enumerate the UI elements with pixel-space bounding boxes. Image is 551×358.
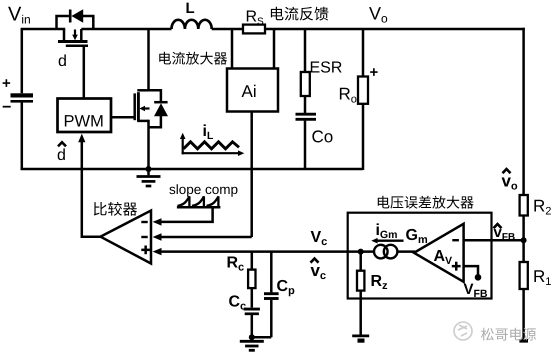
arrow into comparator plus input <box>153 248 162 255</box>
watermark logo circle <box>454 322 472 340</box>
current source Gm circle 2 <box>384 245 398 259</box>
iL waveform axis horizontal <box>182 152 240 154</box>
ground G1 bar1 <box>137 175 161 178</box>
label R2 <box>534 200 550 215</box>
ground G2 bar2 <box>245 345 258 348</box>
wire Rc to Cc <box>251 288 254 308</box>
arrow into comparator middle minus input <box>153 233 162 240</box>
wire top rail right segment <box>265 28 525 31</box>
ground G1 stub <box>147 169 150 175</box>
arrow into PWM bottom (duty command) <box>78 134 85 143</box>
resistor R1 <box>520 262 528 289</box>
label ESR <box>311 61 342 72</box>
slope comp sawtooth <box>178 196 219 206</box>
resistor Rs <box>243 25 265 34</box>
label slope comp <box>169 184 237 197</box>
transistor Q1 body arrow head <box>72 35 78 41</box>
op-amp U2 Av <box>414 224 464 282</box>
transistor Q2 source tab <box>137 120 148 123</box>
block error amplifier box <box>348 213 492 299</box>
iL waveform axis horizontal arrow <box>238 150 244 156</box>
junction compensation ground node <box>249 334 255 340</box>
current source iGm arrow head <box>371 238 377 244</box>
slope comp baseline <box>177 206 221 209</box>
wire top rail left segment <box>21 28 66 31</box>
capacitor Cp bottom plate <box>264 297 279 300</box>
transistor Q2 gate bar <box>133 93 136 120</box>
wire ESR branch top <box>304 29 307 71</box>
junction vFB node <box>521 237 527 243</box>
label Vin <box>8 7 30 24</box>
iL waveform axis vertical arrow <box>180 133 186 139</box>
wire Gm to op-amp output <box>397 250 415 253</box>
transistor Q1 source tab <box>63 29 66 40</box>
diode D1 cathode bar <box>69 10 72 23</box>
wire op-amp minus input <box>464 239 525 242</box>
wire Cp to ground node <box>270 300 273 337</box>
wire bottom rail <box>21 168 363 171</box>
wire Q1 gate lead to PWM <box>83 46 86 98</box>
ground G3 bar2 <box>358 339 365 343</box>
wire Cc to ground node <box>251 315 254 337</box>
label vc-hat <box>311 267 326 279</box>
terminal R1 bottom <box>519 339 528 343</box>
label d-hat accent <box>58 142 66 146</box>
wire comparator output to PWM <box>82 141 101 237</box>
current source Gm circle 1 <box>374 245 388 259</box>
block Ai current amplifier <box>227 69 278 112</box>
wire Vo feedback vertical <box>522 28 525 195</box>
op-amp U2 minus sign <box>452 239 459 241</box>
label Cc <box>229 295 246 309</box>
transistor Q2 drain tab <box>137 89 148 92</box>
label Cp <box>277 280 294 296</box>
label Rs <box>247 10 263 24</box>
battery B1 top plate <box>11 93 34 97</box>
label iGm <box>377 223 397 238</box>
comparator U1 <box>101 211 152 264</box>
label vc-hat accent <box>311 259 319 263</box>
ground G3 bar1 <box>352 335 369 338</box>
wire Rs left stub to Ai <box>231 29 234 69</box>
label Ai <box>242 85 256 97</box>
watermark text 松哥电源 <box>481 328 536 341</box>
wire Ro branch top <box>362 29 365 77</box>
wire Ro to bottom rail <box>362 104 365 170</box>
capacitor Co bottom plate <box>296 118 317 121</box>
wire Rz stub <box>359 252 362 271</box>
wire op-amp plus input <box>464 266 478 275</box>
block PWM <box>58 99 112 133</box>
arrow into comparator top minus input <box>153 218 162 225</box>
wire PWM gate output to Q2 <box>111 116 134 119</box>
label Av <box>434 250 452 264</box>
transistor Q1 channel bar <box>58 40 88 43</box>
wire Vc to Cp <box>270 252 273 293</box>
battery B1 bottom plate <box>11 100 34 103</box>
terminal VFB <box>475 274 482 281</box>
iL waveform sawtooth <box>184 142 240 149</box>
inductor L <box>172 20 212 29</box>
comparator U1 plus sign horizontal <box>141 249 150 252</box>
transistor Q2 body arrow head <box>139 106 145 112</box>
transistor Q1 gate bar <box>66 44 88 47</box>
op-amp U2 plus sign vertical <box>455 262 458 271</box>
label Co <box>312 130 332 142</box>
transistor Q1 body arrow line <box>74 30 76 36</box>
label Rc <box>228 256 244 270</box>
diode D2 loop <box>149 90 161 127</box>
wire Ai output to comparator middle input <box>161 236 252 239</box>
capacitor Cp top plate <box>264 292 279 295</box>
wire Ai output down <box>250 112 253 238</box>
label d (duty) <box>59 54 66 66</box>
wire battery to bottom rail <box>21 103 24 171</box>
label vo-hat accent <box>503 169 511 173</box>
resistor ESR <box>301 72 310 96</box>
label Ro plus <box>370 68 378 76</box>
comparator U1 middle minus sign <box>141 236 147 238</box>
diode D1 body diode of Q1 <box>71 9 83 22</box>
op-amp U2 plus sign horizontal <box>452 265 461 268</box>
resistor R2 <box>520 195 528 216</box>
wire ground node to Cp branch <box>252 336 271 339</box>
wire Vin vertical <box>21 29 24 93</box>
resistor Rz <box>357 271 364 291</box>
wire ESR to Co <box>304 96 307 113</box>
diode D2 cathode bar <box>154 101 167 104</box>
wire top rail middle segment <box>81 28 171 31</box>
wire PMOS diode bridge <box>57 16 94 29</box>
ground G1 bar2 <box>142 180 156 183</box>
junction Rz node <box>358 249 364 255</box>
label Ro <box>340 88 357 103</box>
wire Vc to Rc <box>251 252 254 270</box>
transistor Q2 source line <box>147 120 150 170</box>
label d-hat <box>58 148 65 160</box>
transistor Q1 drain tab <box>80 29 83 40</box>
resistor Ro <box>358 77 368 104</box>
junction switch-node ground <box>146 166 152 172</box>
ground G2 stub <box>251 337 254 340</box>
label current feedback 电流反馈 <box>271 7 329 21</box>
label battery plus <box>3 79 11 87</box>
label vFB-hat accent <box>494 224 502 228</box>
transistor Q2 drain line <box>147 28 150 92</box>
capacitor Co top plate <box>296 113 317 116</box>
transistor Q2 channel bar <box>137 92 140 121</box>
label Vc <box>311 231 327 245</box>
capacitor Cc top plate <box>244 308 260 311</box>
capacitor Cc bottom plate <box>245 312 259 315</box>
resistor Rc <box>248 270 255 289</box>
label Vo <box>369 7 387 23</box>
wire Vc line <box>161 250 374 253</box>
comparator U1 plus sign vertical <box>144 246 147 255</box>
label Gm <box>406 229 427 243</box>
comparator U1 top minus sign <box>141 221 147 223</box>
label Rz <box>372 275 388 289</box>
label current amplifier 电流放大器 <box>159 52 227 65</box>
wire R2 to vFB node <box>522 216 525 263</box>
iL waveform axis vertical <box>182 137 184 154</box>
label PWM <box>65 115 103 126</box>
label vo-hat <box>502 178 518 190</box>
wire R1 down <box>522 289 525 340</box>
label iL <box>204 124 213 139</box>
label comparator 比较器 <box>94 202 137 216</box>
ground G1 bar3 <box>146 185 152 188</box>
current source iGm arrow line <box>376 239 404 241</box>
wire Co to bottom rail <box>304 121 307 170</box>
transistor Q2 body arrow line <box>143 107 150 109</box>
wire Rs right stub to Ai <box>273 29 276 69</box>
wire Rz to ground <box>359 291 362 335</box>
label L <box>187 3 195 13</box>
diode D2 body diode of Q2 <box>154 103 168 116</box>
label vFB-hat <box>494 229 515 240</box>
ground G2 bar1 <box>240 340 264 343</box>
label voltage error amplifier 电压误差放大器 <box>378 196 474 209</box>
ground G2 bar3 <box>249 349 255 352</box>
wire inductor to Rs <box>212 28 243 31</box>
label battery minus <box>3 106 11 108</box>
wire slope comp to comparator <box>161 207 213 222</box>
label VFB <box>464 284 487 297</box>
label R1 <box>534 270 550 285</box>
